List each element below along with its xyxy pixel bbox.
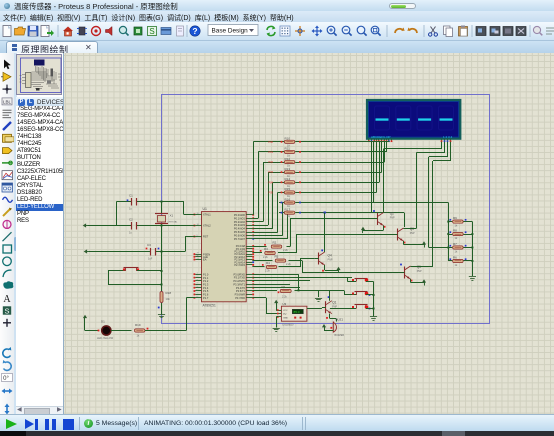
U1 pin 6 P1.5	[195, 290, 201, 292]
resistor R10	[279, 141, 284, 143]
svg-text:P05: P05	[268, 190, 273, 194]
svg-text:XTAL1: XTAL1	[203, 213, 211, 217]
svg-text:P0.4/AD4: P0.4/AD4	[234, 227, 246, 231]
button (reset)	[108, 270, 125, 272]
wire DQ net from P3.7	[252, 297, 266, 299]
svg-text:ABCDEFG DP: ABCDEFG DP	[371, 135, 391, 139]
svg-text:DS18B20: DS18B20	[282, 323, 294, 327]
wire R4 to Q4 base	[300, 259, 302, 268]
svg-text:P03: P03	[268, 170, 273, 174]
wire button row1	[252, 277, 347, 279]
svg-text:X1: X1	[170, 214, 174, 218]
svg-text:C2: C2	[129, 218, 133, 222]
resistor R3	[252, 252, 262, 254]
svg-text:0°: 0°	[3, 376, 9, 382]
U1 pin 31 EA	[195, 259, 201, 261]
svg-text:1k: 1k	[455, 236, 458, 240]
U1 pin P2.5/A13	[246, 259, 252, 261]
display segment pin 6	[381, 139, 383, 142]
wire R16 row to R9	[302, 202, 448, 204]
U1 pin 2 P1.1	[195, 277, 201, 279]
wire R17 to display segment pin	[302, 212, 371, 214]
resistor R5	[252, 260, 272, 262]
svg-text:R19: R19	[135, 323, 141, 327]
crystal X1 (vertical)	[161, 201, 163, 203]
U1 pin P0.0/AD0	[246, 214, 252, 216]
svg-text:1k: 1k	[455, 249, 458, 253]
svg-text:R13: R13	[285, 167, 291, 171]
svg-text:P01: P01	[268, 150, 273, 154]
svg-text:D1: D1	[101, 320, 105, 324]
wire R13 to display segment pin	[302, 172, 382, 174]
svg-text:1k: 1k	[455, 223, 458, 227]
svg-text:VCC: VCC	[283, 310, 288, 312]
ground under R18	[161, 308, 163, 315]
display segment pin 9	[388, 139, 390, 142]
wire R16 to display segment pin	[302, 202, 374, 204]
svg-text:R12: R12	[285, 157, 291, 161]
svg-text:R8: R8	[453, 229, 457, 233]
U1 pin 9 RST	[195, 236, 201, 238]
svg-text:EA: EA	[203, 258, 207, 262]
wire P0.2 to R12	[252, 221, 263, 223]
svg-text:2.2k: 2.2k	[265, 270, 270, 273]
svg-text:PNP: PNP	[410, 232, 415, 235]
wire R19 to P1.7	[186, 298, 188, 331]
svg-text:P0.2/AD2: P0.2/AD2	[234, 220, 246, 224]
svg-text:P04: P04	[268, 180, 273, 184]
wire R12 to display segment pin	[302, 162, 384, 164]
svg-text:P1.0: P1.0	[203, 272, 209, 276]
svg-text:P3.6/WR: P3.6/WR	[235, 293, 246, 297]
svg-text:R14: R14	[285, 177, 291, 181]
wire P3 stubs	[252, 280, 310, 282]
wire R stack left bus	[448, 203, 450, 262]
transistor Q5	[404, 267, 406, 279]
resistor R15	[279, 192, 284, 194]
svg-text:R15: R15	[285, 187, 291, 191]
wire Q1 collector up	[329, 290, 331, 300]
svg-text:DQ: DQ	[283, 314, 287, 316]
resistor R4	[252, 266, 264, 268]
resistor R16	[279, 202, 284, 204]
junction (blue marker)	[324, 212, 326, 214]
U1 pin 29 PSEN	[195, 254, 201, 256]
svg-text:LED-YELLOW: LED-YELLOW	[97, 337, 114, 340]
resistor R17	[279, 212, 284, 214]
button K1	[352, 281, 356, 283]
U1 pin 5 P1.4	[195, 287, 201, 289]
wire Q3 emitter	[403, 241, 405, 245]
svg-text:R10: R10	[285, 137, 291, 141]
U1 pin P3.6/WR	[246, 294, 252, 296]
wire P0.3 to R13	[252, 225, 268, 227]
svg-text:P1.5: P1.5	[203, 289, 209, 293]
svg-text:U3: U3	[282, 302, 286, 306]
wire Q1 collector ground	[299, 290, 319, 292]
svg-text:Q2: Q2	[390, 212, 394, 216]
resistor R19	[134, 329, 145, 332]
junction nodes on reset vertical	[161, 251, 163, 253]
resistor R6	[448, 260, 452, 262]
U1 pin 3 P1.2	[195, 280, 201, 282]
U1 pin P3.3/INT1	[246, 284, 252, 286]
wire R15 to display segment pin	[302, 192, 377, 194]
wire buttons common	[373, 282, 375, 317]
U1 pin P2.2/A10	[246, 251, 252, 253]
capacitor C2	[117, 225, 132, 227]
U1 pin 4 P1.3	[195, 284, 201, 286]
svg-text:1k: 1k	[455, 263, 458, 267]
resistor R13	[279, 172, 284, 174]
U1 pin P3.7/RD	[246, 297, 252, 299]
wire digit2	[444, 142, 446, 153]
stop	[63, 419, 74, 430]
display segment pin 2	[371, 139, 373, 142]
wire reset divider vertical	[161, 226, 163, 289]
U1 pin P3.2/INT0	[246, 280, 252, 282]
svg-text:P0.3/AD3: P0.3/AD3	[234, 223, 246, 227]
svg-text:2.2k: 2.2k	[286, 263, 291, 266]
info	[84, 419, 93, 428]
wire digit3	[447, 142, 449, 157]
svg-text:P1.6: P1.6	[203, 293, 209, 297]
display digit common pin 2	[444, 139, 446, 142]
button K2	[352, 294, 356, 296]
U1 pin P0.2/AD2	[246, 221, 252, 223]
wire C1/C2 common	[116, 202, 118, 226]
svg-text:S: S	[4, 306, 9, 315]
display segment pin 3	[374, 139, 376, 142]
svg-text:2.2k: 2.2k	[282, 296, 287, 299]
wire P0.7 to R17	[252, 238, 287, 240]
svg-text:R2: R2	[273, 241, 277, 245]
junction nodes on left bus	[447, 221, 449, 223]
resistor R14	[279, 182, 284, 184]
wire P0.0 to R10	[251, 214, 254, 216]
wire button to rst divider	[108, 271, 110, 285]
svg-text:P00: P00	[268, 140, 273, 144]
svg-text:85.0: 85.0	[294, 310, 300, 314]
U1 pin P0.6/AD6	[246, 235, 252, 237]
U1 pin P2.7/A15	[246, 264, 252, 266]
wire R stack right bus to ground	[472, 222, 474, 276]
wire R17 row to Q3	[302, 212, 404, 214]
svg-text:R17: R17	[285, 207, 291, 211]
U1 pin P0.1/AD1	[246, 218, 252, 220]
svg-text:P3.1/TXD: P3.1/TXD	[234, 276, 245, 280]
U1 pin P3.0/RXD	[246, 274, 252, 276]
svg-text:?: ?	[192, 26, 197, 36]
transistor Q1	[325, 301, 327, 313]
svg-text:R9: R9	[453, 216, 457, 220]
ground terminal (left arrow) for C3	[87, 251, 90, 253]
svg-text:P0.1/AD1: P0.1/AD1	[234, 216, 246, 220]
U1 pin P2.0/A8	[246, 246, 252, 248]
step	[25, 419, 34, 429]
svg-text:2.2k: 2.2k	[283, 249, 288, 252]
U1 pin P2.3/A11	[246, 254, 252, 256]
wire Q4 emitter to power	[324, 265, 326, 270]
svg-text:S: S	[149, 27, 154, 36]
svg-text:PNP: PNP	[417, 270, 422, 273]
svg-text:CRYSTAL: CRYSTAL	[168, 221, 179, 224]
junction nodes buttons common	[373, 294, 375, 296]
svg-text:R6: R6	[453, 256, 457, 260]
svg-text:BUZZER: BUZZER	[335, 334, 345, 337]
ground right	[469, 276, 476, 278]
U1 pin P3.4/T0	[246, 287, 252, 289]
svg-text:PNP: PNP	[390, 217, 395, 220]
wire Q1 base row3 buttons	[307, 308, 322, 310]
bus loop (purple rectangle net)	[162, 95, 490, 324]
pause	[45, 419, 49, 430]
svg-text:R7: R7	[453, 242, 457, 246]
svg-text:R18: R18	[166, 291, 172, 295]
svg-text:P02: P02	[268, 160, 273, 164]
wire Q2 collector digit1	[383, 149, 385, 213]
U1 pin P0.7/AD7	[246, 238, 252, 240]
wire Q4 collector	[324, 251, 326, 253]
svg-text:R4: R4	[266, 261, 270, 265]
svg-text:P3.3/INT1: P3.3/INT1	[233, 282, 245, 286]
U1 pin P3.1/TXD	[246, 277, 252, 279]
svg-text:1k: 1k	[287, 214, 290, 218]
wire R11 to display segment pin	[302, 151, 387, 153]
wire R14 to display segment pin	[302, 182, 379, 184]
display segment pin 10	[391, 139, 393, 142]
display segment pin 7	[384, 139, 386, 142]
resistor R7	[448, 247, 452, 249]
svg-text:A: A	[3, 294, 11, 305]
U1 pin 18 XTAL2	[195, 225, 201, 227]
wire P0.5 to R15	[252, 232, 277, 234]
button K3	[352, 308, 356, 310]
power terminal U3	[276, 303, 278, 306]
svg-text:C1: C1	[129, 194, 133, 198]
svg-text:1u: 1u	[129, 232, 132, 235]
svg-text:P3.0/RXD: P3.0/RXD	[233, 272, 245, 276]
svg-text:2.2k: 2.2k	[263, 256, 268, 259]
svg-text:R3: R3	[264, 247, 268, 251]
svg-text:Q1: Q1	[332, 301, 336, 305]
LED D1	[85, 330, 98, 332]
power terminal for LED	[84, 318, 86, 321]
U1 pin P0.3/AD3	[246, 225, 252, 227]
display digit common pin 1	[441, 139, 443, 142]
U1 pin P0.4/AD4	[246, 228, 252, 230]
wire Q2 emitter	[383, 226, 385, 231]
wire R3 to Q3 base	[296, 235, 298, 254]
U1 pin 8 P1.7	[195, 297, 201, 299]
transistor Q3	[397, 229, 399, 241]
U1 pin P2.4/A12	[246, 256, 252, 258]
svg-text:1k: 1k	[137, 334, 140, 338]
wire P0.6 to R16	[252, 235, 282, 237]
svg-text:Q4: Q4	[328, 254, 332, 258]
svg-text:P1.1: P1.1	[203, 276, 209, 280]
svg-text:R5: R5	[275, 255, 279, 259]
resistor R12	[279, 162, 284, 164]
display segment pin 5	[378, 139, 380, 142]
svg-text:P0.5/AD5: P0.5/AD5	[234, 230, 246, 234]
U1 pin P2.1/A9	[246, 248, 252, 250]
capacitor C1	[117, 201, 132, 203]
transistor Q2	[377, 213, 379, 225]
U1 pin P3.5/T1	[246, 290, 252, 292]
svg-text:PNP: PNP	[328, 259, 333, 262]
4-digit 7-segment display	[367, 100, 460, 139]
ground terminal (left arrow) for caps	[88, 225, 117, 227]
wire RST net	[185, 236, 195, 238]
resistor R2	[252, 246, 266, 248]
display segment pin 1	[368, 139, 370, 142]
svg-text:BUZ1: BUZ1	[336, 317, 344, 321]
DS18B20 U3	[281, 306, 307, 321]
svg-text:P1.7: P1.7	[203, 296, 209, 300]
svg-text:Base Design: Base Design	[212, 27, 249, 34]
wire P0.4 to R14	[252, 228, 273, 230]
buzzer BUZ1	[333, 322, 335, 333]
svg-text:10k: 10k	[166, 297, 171, 301]
svg-text:P0.0/AD0: P0.0/AD0	[234, 213, 246, 217]
svg-text:GND: GND	[283, 317, 288, 319]
MCU U1 AT89C51	[202, 212, 247, 302]
resistor R1	[280, 289, 291, 292]
wire digit4	[450, 142, 452, 161]
wire Q5 emitter	[410, 279, 412, 283]
play	[6, 419, 17, 429]
U1 pin 30 ALE	[195, 256, 201, 258]
svg-text:RST: RST	[203, 235, 209, 239]
display segment pin 4	[376, 139, 378, 142]
svg-text:P3.7/RD: P3.7/RD	[235, 296, 245, 300]
svg-text:AT89C51: AT89C51	[203, 304, 216, 308]
U1 pin 7 P1.6	[195, 294, 201, 296]
resistor R18	[161, 288, 163, 291]
U1 pin P2.6/A14	[246, 262, 252, 264]
svg-text:XTAL2: XTAL2	[203, 224, 211, 228]
transistor Q4	[318, 253, 320, 265]
U1 pin P0.5/AD5	[246, 232, 252, 234]
wire P0.1 to R11	[252, 218, 258, 220]
svg-text:1 2 3 4: 1 2 3 4	[443, 135, 453, 139]
svg-text:C3: C3	[147, 243, 151, 247]
svg-text:R11: R11	[285, 147, 291, 151]
U1 pin 1 P1.0	[195, 274, 201, 276]
junction nodes on right bus	[471, 233, 473, 235]
U1 pin 19 XTAL1	[195, 214, 201, 216]
svg-text:R16: R16	[285, 197, 291, 201]
wire R10 to display segment pin	[302, 141, 390, 143]
wire down to Q4 collector	[324, 213, 326, 251]
svg-text:P0.6/AD6: P0.6/AD6	[234, 234, 246, 238]
display segment pin 8	[386, 139, 388, 142]
ground buttons	[370, 316, 377, 318]
wire buttons to MCU rows	[348, 277, 353, 279]
capacitor C3	[89, 251, 150, 253]
wire XTAL1	[183, 202, 185, 215]
display digit common pin 3	[447, 139, 449, 142]
svg-text:U1: U1	[203, 207, 207, 211]
wire R2 to Q2 base	[290, 219, 292, 247]
svg-text:P3.5/T1: P3.5/T1	[236, 289, 246, 293]
svg-text:P0.7/AD7: P0.7/AD7	[234, 237, 246, 241]
wire R5 to Q5 base	[302, 261, 304, 273]
resistor R11	[279, 151, 284, 153]
ground under U3	[276, 316, 278, 318]
svg-text:LBL: LBL	[3, 99, 12, 104]
resistor R8	[448, 234, 452, 236]
resistor R9	[448, 221, 452, 223]
wire P3.0	[252, 274, 298, 276]
wire R1 row	[252, 290, 277, 292]
svg-text:1u: 1u	[129, 208, 132, 211]
power terminal buzzer	[324, 327, 326, 330]
svg-text:P2.7/A15: P2.7/A15	[234, 263, 245, 267]
display digit common pin 4	[450, 139, 452, 142]
wire Q1 emitter to buzzer	[329, 314, 331, 319]
svg-text:P1.3: P1.3	[203, 283, 209, 287]
svg-text:1uF: 1uF	[148, 258, 153, 261]
